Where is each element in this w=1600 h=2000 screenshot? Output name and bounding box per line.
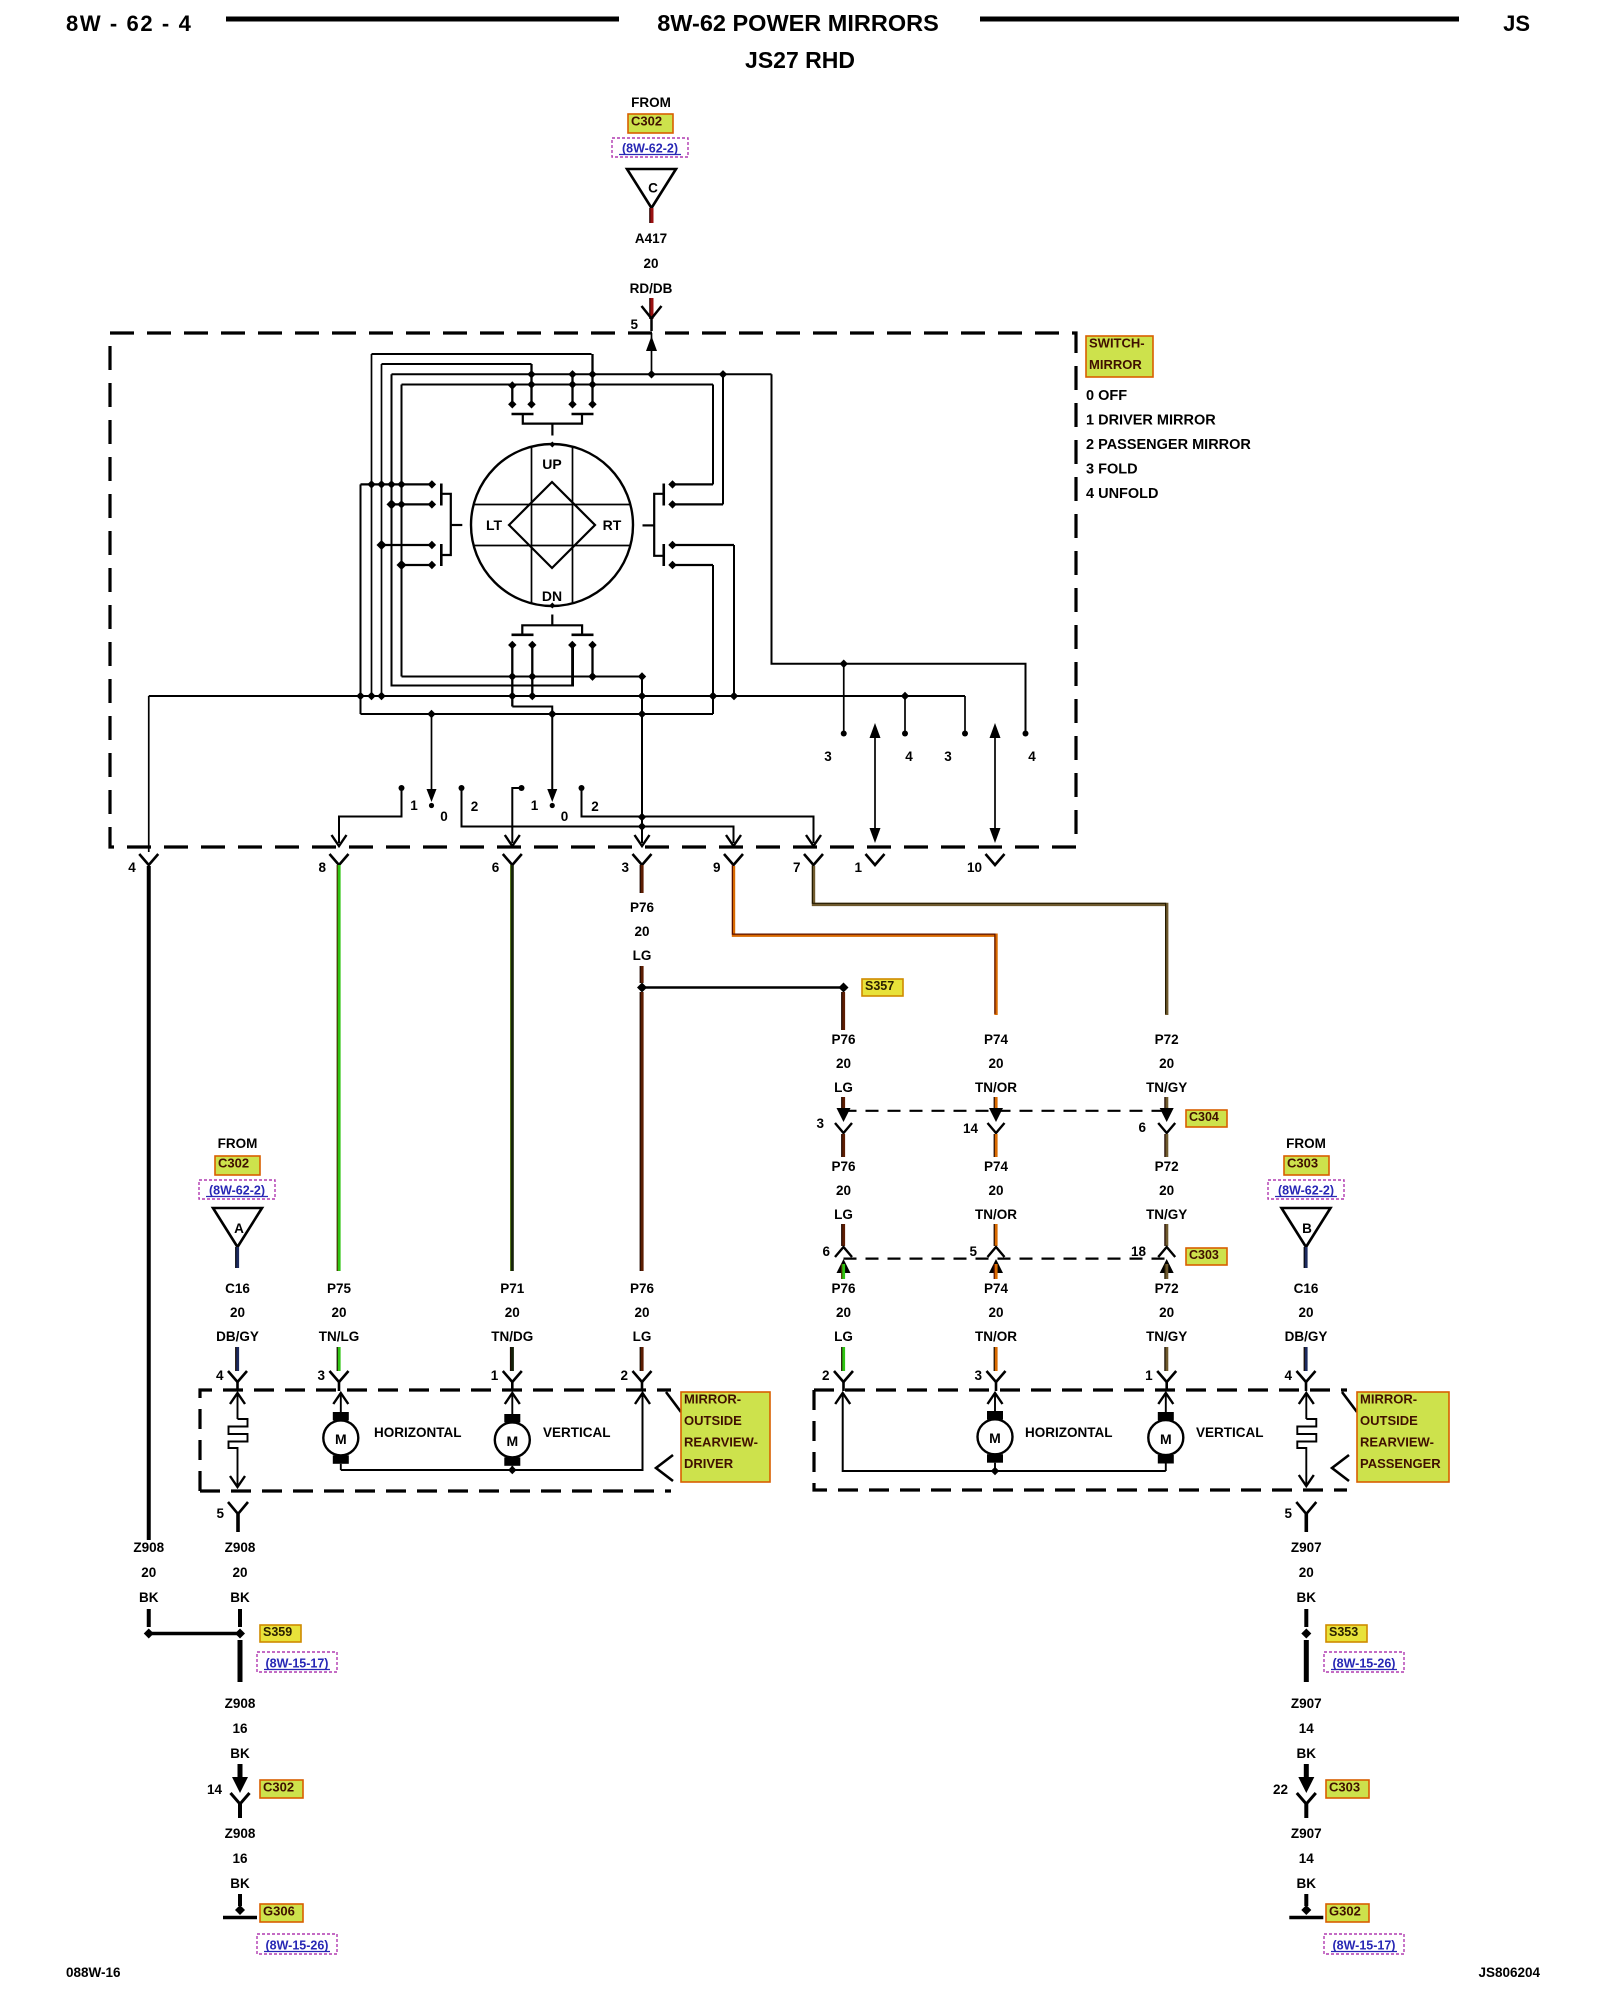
connector C302 (bottom) [231,1793,250,1804]
svg-text:LG: LG [633,948,652,963]
svg-text:9: 9 [713,860,721,875]
contact bracket and stem (left) [441,494,451,555]
splice S359 [149,1632,240,1635]
svg-text:20: 20 [634,924,649,939]
wire P75 connector tail [337,1347,340,1371]
wire C16 connector tail [236,1347,239,1371]
svg-text:1: 1 [491,1368,499,1383]
wire pin4 drop inside box [148,696,150,852]
wire P76 from S357 down to C304 column [842,992,845,1030]
svg-text:(8W-15-26): (8W-15-26) [266,1939,329,1953]
svg-text:RD/DB: RD/DB [630,281,673,296]
svg-text:20: 20 [988,1183,1003,1198]
svg-text:3: 3 [621,860,629,875]
fold wiper arrow pin10 [994,727,996,839]
link 8W-15-17 (S359) [257,1652,337,1672]
svg-text:TN/LG: TN/LG [319,1329,360,1344]
svg-text:20: 20 [634,1305,649,1320]
splice S353 [1301,1629,1311,1639]
svg-text:20: 20 [1159,1056,1174,1071]
svg-text:M: M [1160,1431,1172,1447]
passenger motor M vertical [1158,1393,1173,1404]
contact stub 3 (left) [382,544,432,546]
svg-text:0: 0 [561,809,569,824]
svg-text:P76: P76 [831,1159,856,1174]
svg-text:P71: P71 [500,1281,525,1296]
svg-text:P75: P75 [327,1281,352,1296]
svg-text:C304: C304 [1189,1110,1219,1124]
switch knob circle [471,444,633,606]
svg-text:6: 6 [492,860,500,875]
svg-text:DB/GY: DB/GY [1285,1329,1328,1344]
svg-text:0: 0 [440,809,448,824]
page header rule right [980,17,1459,22]
connector C303 chevrons P74 [988,1247,1005,1257]
contact stub 1 (bottom) [511,645,513,707]
svg-text:C16: C16 [1294,1281,1319,1296]
svg-text:OUTSIDE: OUTSIDE [1360,1413,1418,1428]
svg-text:UP: UP [542,456,561,472]
svg-text:14: 14 [207,1782,223,1797]
driver box break marks [666,1392,681,1412]
selector 1 contact pos2 [459,785,465,791]
svg-text:8W-62 POWER MIRRORS: 8W-62 POWER MIRRORS [657,10,939,36]
svg-text:10: 10 [967,860,982,875]
svg-text:4: 4 [1284,1368,1292,1383]
connector C304 chevrons P76 [837,1108,851,1122]
selector 2 contact pos2 [579,785,585,791]
wire vertical v3 [392,374,574,685]
wire P75 TN/LG pin8 drop [337,865,340,1271]
wire Z907 below S353 [1304,1640,1309,1682]
wire Z907 to ground [1304,1894,1308,1906]
wire P76 below S357 to driver pin2 [640,992,643,1271]
svg-text:P76: P76 [831,1032,856,1047]
svg-text:6: 6 [1138,1120,1146,1135]
svg-text:(8W-15-26): (8W-15-26) [1333,1657,1396,1671]
wire arrow into C303 [1304,1764,1309,1783]
wire right v-stub1 [712,385,714,485]
svg-text:20: 20 [836,1305,851,1320]
svg-text:MIRROR-: MIRROR- [1360,1392,1417,1407]
svg-text:Z908: Z908 [225,1826,256,1841]
wire P74 TN/OR pin9 route [734,866,997,1015]
svg-text:REARVIEW-: REARVIEW- [1360,1435,1434,1450]
label P74 20 TN/OR (below C304) [994,1134,997,1157]
svg-text:20: 20 [836,1183,851,1198]
contact stub B (top) [530,364,532,404]
driver resistor leg pin4 [230,1393,245,1404]
contact stub 1 (left) [361,483,432,485]
label C303 (inline) [1186,1248,1227,1265]
svg-text:BK: BK [1297,1876,1317,1891]
contact stub 4 (bottom) [591,645,593,677]
svg-text:(8W-62-2): (8W-62-2) [209,1184,265,1198]
wire C16 DB/GY stub (driver) [236,1247,239,1268]
wire P74 below C303 [994,1264,997,1279]
svg-text:20: 20 [141,1565,156,1580]
svg-text:C303: C303 [1287,1156,1318,1171]
svg-text:LT: LT [486,517,503,533]
wire DN stub4 corner to pin3 drop [593,677,643,844]
svg-text:LG: LG [834,1080,853,1095]
svg-text:20: 20 [988,1056,1003,1071]
svg-text:FROM: FROM [218,1136,258,1151]
svg-text:P72: P72 [1155,1281,1179,1296]
wire bus L2 [382,363,532,365]
svg-text:5: 5 [216,1506,224,1521]
svg-text:1: 1 [531,798,539,813]
svg-text:1: 1 [854,860,862,875]
passenger resistor leg pin4 [1299,1393,1314,1404]
svg-text:DN: DN [542,588,562,604]
connector C303 (bottom) [1297,1793,1316,1804]
driver motor return bus [341,1393,643,1470]
wire DN stub1 corner to sel2 wiper [512,707,552,798]
contact stub 2 (bottom) [531,645,533,696]
contact stub 2 (left) [392,503,432,505]
svg-text:2: 2 [822,1368,830,1383]
wire vertical v2 [381,364,383,696]
svg-text:OUTSIDE: OUTSIDE [684,1413,742,1428]
svg-text:TN/OR: TN/OR [975,1207,1017,1222]
wire P76 connector tail [640,1347,643,1371]
svg-text:C303: C303 [1329,1780,1360,1795]
contact bracket and stem (top) [523,414,582,424]
svg-text:(8W-62-2): (8W-62-2) [622,142,678,156]
label S357 [862,979,903,996]
svg-text:TN/GY: TN/GY [1146,1329,1187,1344]
wire C16 DB/GY stub (passenger) [1304,1247,1307,1268]
fold contact dots [841,731,847,737]
svg-text:P74: P74 [984,1032,1009,1047]
svg-text:3 FOLD: 3 FOLD [1086,462,1138,478]
svg-text:20: 20 [1299,1565,1314,1580]
driver motor M vertical [505,1393,520,1404]
link 8W-15-17 (G302) [1324,1934,1404,1954]
svg-text:20: 20 [1159,1305,1174,1320]
svg-text:0 OFF: 0 OFF [1086,388,1127,404]
svg-text:BK: BK [1297,1590,1317,1605]
svg-text:FROM: FROM [1286,1136,1326,1151]
contact stub 3 (right) [673,544,735,546]
wire right v-stub3 [733,545,735,696]
svg-text:Z907: Z907 [1291,1540,1322,1555]
svg-text:6: 6 [822,1244,830,1259]
svg-text:2: 2 [591,799,599,814]
contact stub 4 (right) [673,564,714,566]
selector 1 contact pos1 [399,785,405,791]
label SWITCH-MIRROR [1086,336,1153,377]
svg-text:2: 2 [471,799,479,814]
link 8W-15-26 (G306) [257,1934,337,1954]
svg-text:BK: BK [230,1590,250,1605]
off-page connector triangle B [1282,1208,1331,1247]
svg-text:VERTICAL: VERTICAL [543,1425,611,1440]
wire right v-stub2 [722,374,724,504]
mirror-outside-rearview-passenger dashed outline [814,1390,1347,1490]
svg-text:P74: P74 [984,1159,1009,1174]
svg-text:LG: LG [834,1329,853,1344]
link 8W-62-2 (driver feed) [199,1180,275,1199]
wire P72 TN/GY pin7 route [814,866,1167,1015]
connector C303 chevrons P76 [835,1247,852,1257]
wire P76 connector tail [842,1347,845,1371]
wire P71 TN/DG pin6 drop [511,865,514,1271]
wire P74 connector tail [994,1347,997,1371]
svg-text:(8W-62-2): (8W-62-2) [1278,1184,1334,1198]
svg-text:3: 3 [944,749,952,764]
wire vertical v4 [401,385,403,677]
svg-text:4 UNFOLD: 4 UNFOLD [1086,486,1159,502]
svg-text:20: 20 [836,1056,851,1071]
svg-text:P72: P72 [1155,1159,1179,1174]
connector C304 chevrons P74 [989,1108,1003,1122]
wire fold stub a [843,664,845,734]
ground G306 [235,1905,245,1915]
svg-text:FROM: FROM [631,95,671,110]
contact stub 3 (bottom) [571,645,573,686]
label P76 20 LG (below C304) [842,1134,845,1157]
svg-text:BK: BK [230,1876,250,1891]
wire P71 connector tail [511,1347,514,1371]
pin 5 connector half-arrows [642,306,662,319]
wire Z908 stub (driver pin5) [238,1609,242,1627]
passenger box break marks [1342,1392,1357,1412]
wire bus L3 [392,373,772,375]
off-page connector triangle A [213,1208,262,1247]
connector label C303 (passenger feed) [1284,1156,1329,1175]
wire P76 LG pin3 to S357 [640,966,643,983]
svg-text:SWITCH-: SWITCH- [1089,336,1145,351]
link 8W-62-2 (top) [612,138,688,157]
svg-text:S353: S353 [1329,1625,1358,1639]
svg-text:HORIZONTAL: HORIZONTAL [374,1425,462,1440]
wire A417 RD/DB segment 2 (red) [650,298,654,319]
wire vertical v0 from left stub1 [360,484,362,714]
svg-text:P74: P74 [984,1281,1009,1296]
svg-text:HORIZONTAL: HORIZONTAL [1025,1425,1113,1440]
svg-text:P72: P72 [1155,1032,1179,1047]
knob chord lines [531,448,533,603]
svg-text:JS806204: JS806204 [1478,1965,1540,1980]
svg-text:3: 3 [816,1116,824,1131]
contact gate bars (bottom) [512,633,534,636]
svg-text:C303: C303 [1189,1248,1219,1262]
svg-text:BK: BK [139,1590,159,1605]
wire segments into C303 [842,1224,845,1246]
svg-text:MIRROR-: MIRROR- [684,1392,741,1407]
contact stub 1 (right) [673,483,714,485]
svg-text:Z907: Z907 [1291,1696,1322,1711]
selector 1 wiper [431,714,433,797]
contact gate bars (top) [512,413,534,416]
svg-text:C302: C302 [263,1780,294,1795]
connector C304 dashed line [844,1110,1167,1112]
svg-text:20: 20 [331,1305,346,1320]
wire pin5 feed into L3 [651,333,653,374]
svg-text:P76: P76 [630,900,655,915]
label P72 20 TN/GY (below C304) [1165,1134,1168,1157]
wire row y696 fold stubs [904,696,906,734]
wire A417 RD/DB segment 1 (red) [650,208,654,223]
svg-text:BK: BK [230,1746,250,1761]
wire P72 connector tail [1165,1347,1168,1371]
wire C16 connector tail [1304,1347,1307,1371]
contact stub 2 (right) [673,503,724,505]
svg-text:20: 20 [988,1305,1003,1320]
selector 2 contact pos1 [519,785,525,791]
svg-text:JS: JS [1503,11,1530,36]
svg-text:5: 5 [969,1244,977,1259]
svg-text:22: 22 [1273,1782,1288,1797]
svg-text:Z908: Z908 [225,1540,256,1555]
wire row y696 [149,695,965,697]
svg-text:P76: P76 [630,1281,655,1296]
svg-text:20: 20 [643,256,658,271]
svg-text:REARVIEW-: REARVIEW- [684,1435,758,1450]
svg-text:JS27 RHD: JS27 RHD [745,47,855,73]
svg-text:S357: S357 [865,979,894,993]
svg-text:S359: S359 [263,1625,292,1639]
link 8W-62-2 (passenger feed) [1268,1180,1344,1199]
wire P76 below C303 (green) [842,1264,845,1279]
wire P76 LG pin3 upper segment [640,865,643,893]
fold wiper arrow pin1 [874,727,876,839]
svg-text:A: A [234,1221,244,1236]
svg-text:7: 7 [793,860,801,875]
svg-text:4: 4 [128,860,136,875]
contact stub 4 (left) [402,564,432,566]
svg-text:2: 2 [620,1368,628,1383]
contact gate bars (right) [662,484,665,506]
svg-text:4: 4 [1028,749,1036,764]
contact stub C (top) [571,374,573,404]
svg-text:20: 20 [505,1305,520,1320]
svg-text:16: 16 [232,1721,248,1736]
driver motor M horizontal [333,1393,348,1404]
svg-text:14: 14 [1299,1851,1315,1866]
page header rule left [226,17,619,22]
wire Z908 to ground [238,1894,242,1906]
svg-text:20: 20 [1298,1305,1313,1320]
svg-text:5: 5 [1284,1506,1292,1521]
mirror-outside-rearview-driver dashed outline [200,1489,671,1492]
svg-text:Z908: Z908 [225,1696,256,1711]
connector C303 dashed line [844,1257,1167,1259]
svg-text:PASSENGER: PASSENGER [1360,1456,1441,1471]
svg-text:4: 4 [905,749,913,764]
wire Z908 stub to S359 (left) [147,1609,151,1627]
svg-text:TN/OR: TN/OR [975,1329,1017,1344]
svg-text:(8W-15-17): (8W-15-17) [266,1657,329,1671]
wire segments into C304 [842,1097,845,1109]
svg-text:TN/DG: TN/DG [491,1329,533,1344]
wire Z908 pin4 (thick black) [147,866,151,1540]
wire vertical v1 [371,354,373,696]
wire right v-stub4 [712,565,714,714]
svg-text:088W-16: 088W-16 [66,1965,121,1980]
wire arrow into C302 [238,1764,243,1783]
wire L3 right drop and fold feed [772,374,1026,733]
svg-text:20: 20 [232,1565,247,1580]
svg-text:C: C [648,181,658,196]
svg-text:VERTICAL: VERTICAL [1196,1425,1264,1440]
connector C303 chevrons P72 [1158,1247,1175,1257]
svg-text:M: M [335,1431,347,1447]
link 8W-15-26 (S353) [1324,1652,1404,1672]
svg-text:RT: RT [603,517,622,533]
connector label C302 (top) [628,114,673,133]
svg-text:14: 14 [963,1121,979,1136]
svg-text:TN/GY: TN/GY [1146,1080,1187,1095]
svg-text:TN/GY: TN/GY [1146,1207,1187,1222]
svg-text:MIRROR: MIRROR [1089,357,1142,372]
wire Z907 stub to S353 [1304,1609,1308,1627]
svg-text:Z908: Z908 [133,1540,164,1555]
svg-text:3: 3 [317,1368,325,1383]
svg-text:G302: G302 [1329,1904,1361,1919]
svg-text:(8W-15-17): (8W-15-17) [1333,1939,1396,1953]
contact stem and bracket (bottom) [549,603,555,609]
connector C304 chevrons P72 [1160,1108,1174,1122]
svg-text:20: 20 [1159,1183,1174,1198]
wire P72 below C303 [1165,1264,1168,1279]
svg-text:8W - 62 - 4: 8W - 62 - 4 [66,11,192,36]
svg-text:1: 1 [410,798,418,813]
wire bus L1 [372,353,592,355]
svg-text:G306: G306 [263,1904,295,1919]
connector label C302 (driver feed) [215,1156,260,1175]
svg-text:A417: A417 [635,231,667,246]
svg-text:1 DRIVER MIRROR: 1 DRIVER MIRROR [1086,413,1216,429]
passenger pin2 feed and return bus [835,1393,850,1404]
svg-text:TN/OR: TN/OR [975,1080,1017,1095]
svg-text:C302: C302 [631,114,662,129]
svg-text:20: 20 [230,1305,245,1320]
ground G302 [1301,1905,1311,1915]
svg-text:C302: C302 [218,1156,249,1171]
contact stub D (top) [591,354,593,404]
wire row y676 [402,676,643,678]
svg-text:18: 18 [1131,1244,1147,1259]
svg-text:Z907: Z907 [1291,1826,1322,1841]
svg-text:4: 4 [216,1368,224,1383]
svg-text:3: 3 [824,749,832,764]
knob diamond [509,482,595,568]
passenger motor M horizontal [988,1393,1003,1404]
svg-text:5: 5 [630,317,638,332]
svg-text:LG: LG [633,1329,652,1344]
svg-text:DB/GY: DB/GY [216,1329,259,1344]
svg-text:M: M [989,1430,1001,1446]
splice S357 [642,986,844,989]
switch-mirror dashed outline [110,333,1076,847]
wire bus L4 [402,384,714,386]
svg-text:B: B [1302,1221,1312,1236]
label C304 [1186,1110,1227,1127]
wire row y714 (wiper bus) [361,713,714,715]
svg-text:16: 16 [232,1851,248,1866]
svg-text:1: 1 [1145,1368,1153,1383]
svg-text:2 PASSENGER MIRROR: 2 PASSENGER MIRROR [1086,437,1251,453]
svg-text:M: M [506,1433,518,1449]
svg-text:LG: LG [834,1207,853,1222]
contact gate bars (left) [440,484,443,506]
svg-text:8: 8 [318,860,326,875]
contact stub A (top) [511,385,513,405]
label MIRROR-OUTSIDE REARVIEW-PASSENGER [1357,1392,1449,1482]
